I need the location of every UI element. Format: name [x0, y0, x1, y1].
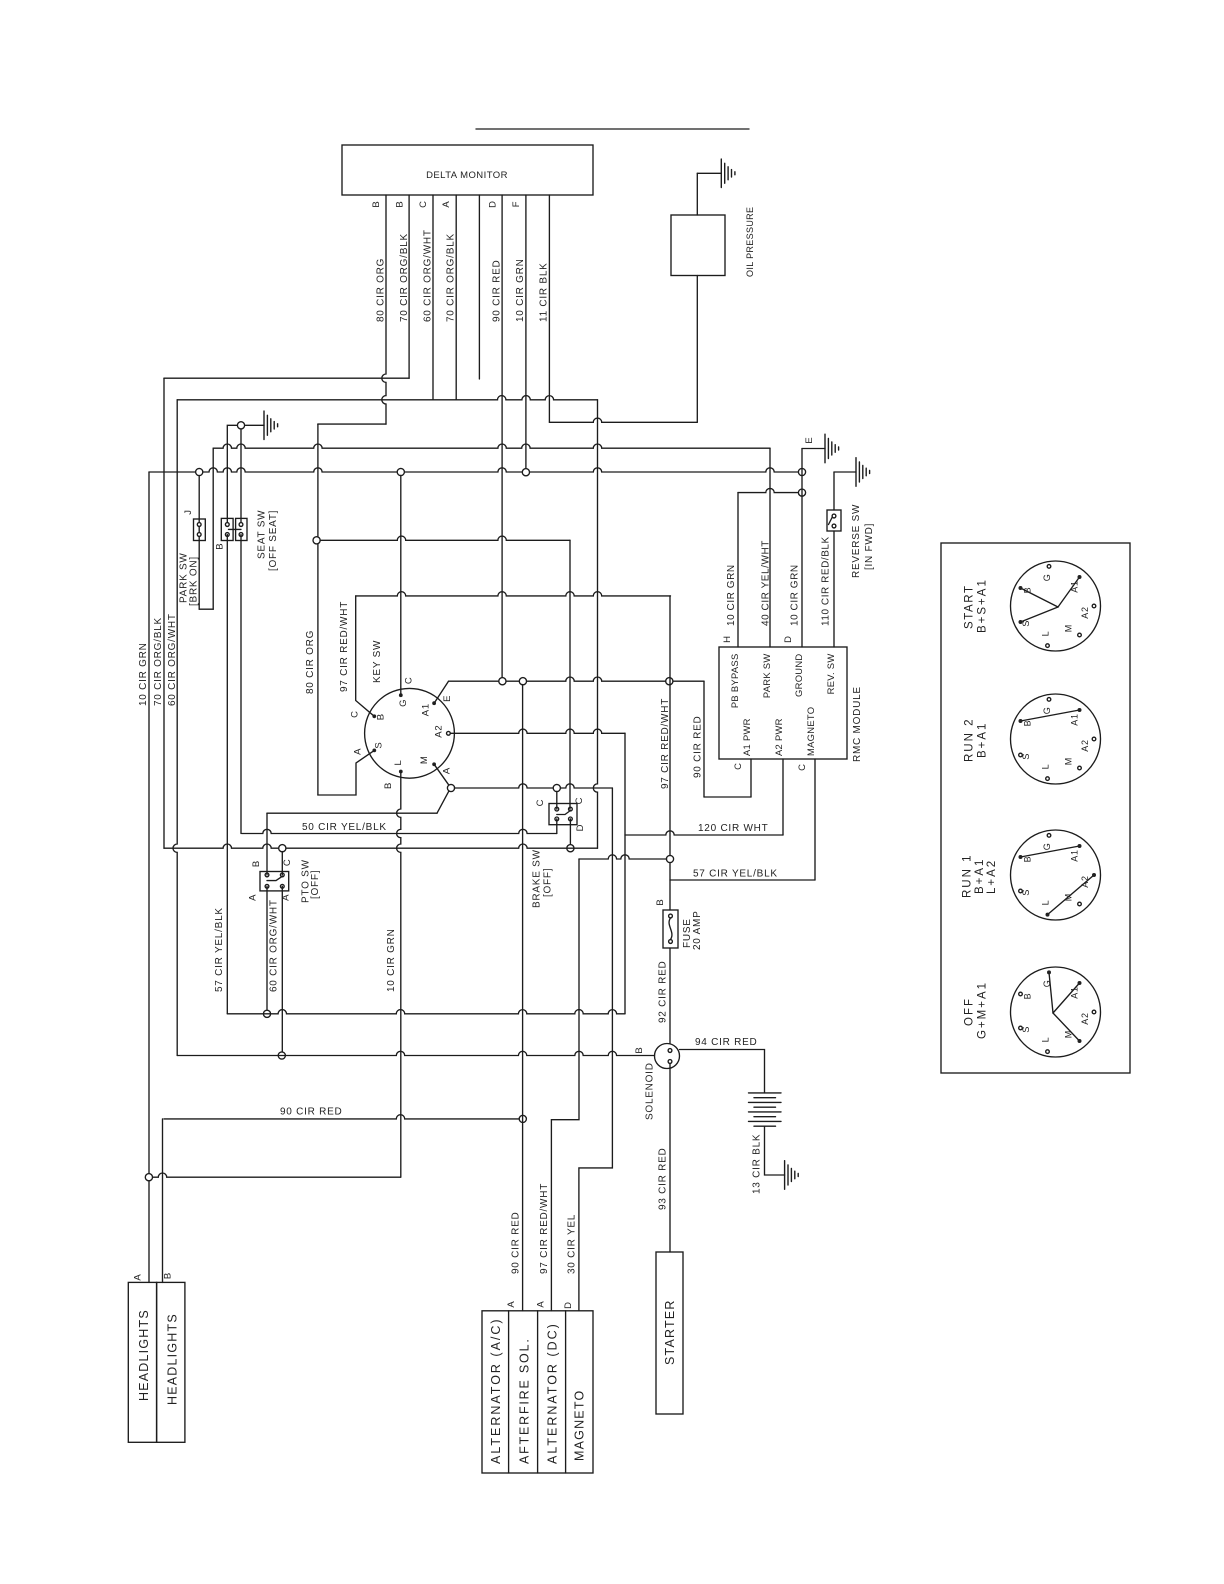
svg-text:50 CIR YEL/BLK: 50 CIR YEL/BLK: [302, 822, 387, 833]
svg-text:KEY SW: KEY SW: [372, 640, 383, 683]
svg-text:30 CIR YEL: 30 CIR YEL: [567, 1214, 578, 1274]
wire brake TL up to M node: [556, 791, 558, 809]
position RUN 2 circle: [1011, 694, 1101, 784]
svg-text:97 CIR RED/WHT: 97 CIR RED/WHT: [539, 1183, 550, 1274]
node park top junction: [196, 468, 203, 475]
wire 57 CIR YEL/BLK y1014: [227, 1010, 625, 1014]
wire 57 CIR YEL/BLK seat left down: [226, 535, 228, 1014]
wire 57 CIR YEL/BLK right: [670, 879, 815, 881]
svg-text:RUN 2: RUN 2: [963, 717, 975, 762]
svg-text:DELTA MONITOR: DELTA MONITOR: [426, 170, 508, 181]
svg-text:110 CIR RED/BLK: 110 CIR RED/BLK: [821, 536, 832, 626]
svg-text:120 CIR WHT: 120 CIR WHT: [698, 823, 768, 834]
svg-text:OFF: OFF: [963, 997, 975, 1026]
node 80 CIR ORG brake tap: [313, 537, 320, 544]
svg-text:60 CIR ORG/WHT: 60 CIR ORG/WHT: [423, 229, 434, 322]
title separator line: [476, 128, 749, 130]
node brake top junction: [553, 784, 560, 791]
svg-text:10 CIR GRN: 10 CIR GRN: [515, 258, 526, 322]
battery: [749, 1093, 782, 1126]
wire 90 CIR RED to A1 PWR: [703, 681, 705, 797]
svg-text:OIL PRESSURE: OIL PRESSURE: [745, 207, 755, 277]
pin B key switch: [372, 714, 376, 718]
position START contact line: [1058, 577, 1080, 607]
contact brake BL: [555, 817, 559, 821]
svg-text:[OFF]: [OFF]: [543, 868, 554, 897]
svg-text:A1: A1: [1070, 849, 1080, 862]
position OFF pin A1: [1078, 981, 1082, 985]
contact reverse bottom: [832, 524, 836, 528]
svg-text:M: M: [1063, 1030, 1073, 1038]
wire rmc A1 PWR down: [750, 759, 752, 797]
wire 97 CIR RED/WHT horizontal y596: [356, 592, 671, 596]
position START pin A1: [1078, 575, 1082, 579]
svg-text:B+A1: B+A1: [974, 858, 986, 894]
wire 11 CIR BLK horizontal: [549, 418, 697, 422]
contact PTO TL: [265, 873, 269, 877]
wire 10 CIR GRN to headlights y1177: [152, 1173, 400, 1177]
svg-text:[OFF]: [OFF]: [310, 870, 321, 899]
contact solenoid bottom: [668, 1060, 672, 1064]
position START contact line: [1021, 588, 1059, 607]
svg-text:60 CIR ORG/WHT: 60 CIR ORG/WHT: [167, 613, 178, 706]
contact seat R bottom: [239, 533, 243, 537]
svg-text:G+M+A1: G+M+A1: [976, 981, 988, 1039]
svg-text:A2: A2: [433, 724, 444, 737]
svg-text:57 CIR YEL/BLK: 57 CIR YEL/BLK: [214, 907, 225, 992]
position OFF circle: [1011, 967, 1101, 1057]
component FUSE box: [663, 910, 678, 948]
component DELTA MONITOR box: [342, 145, 593, 195]
wire seat link bar: [229, 528, 242, 530]
svg-text:D: D: [575, 824, 586, 832]
wire brake D line y833: [242, 829, 557, 833]
divider alternator box 1: [508, 1311, 510, 1473]
ground battery: [785, 1161, 799, 1190]
svg-text:C: C: [350, 710, 361, 718]
wire rmc A2 PWR down: [782, 759, 784, 835]
contact park bottom: [197, 533, 201, 537]
pin A2 key switch: [447, 731, 451, 735]
svg-text:B: B: [376, 713, 387, 720]
position RUN 2 pin A1: [1078, 708, 1082, 712]
wire 60 CIR ORG/WHT right branch vertical: [593, 400, 597, 848]
wire headlight B feed: [162, 1119, 164, 1283]
svg-text:B+S+A1: B+S+A1: [976, 578, 988, 633]
pin S key switch: [372, 749, 376, 753]
node headlight junction: [145, 1174, 152, 1181]
svg-text:90 CIR RED: 90 CIR RED: [511, 1211, 522, 1274]
svg-text:C: C: [535, 799, 546, 807]
position RUN 1 pin A1: [1078, 844, 1082, 848]
position RUN 2 pin B: [1019, 719, 1023, 723]
svg-text:A1: A1: [1070, 713, 1080, 726]
svg-text:10 CIR GRN: 10 CIR GRN: [138, 642, 149, 706]
wire 50 CIR YEL/BLK horizontal: [267, 812, 437, 814]
svg-text:M: M: [1063, 757, 1073, 765]
svg-text:13 CIR BLK: 13 CIR BLK: [752, 1134, 763, 1194]
contact fuse top: [669, 914, 673, 918]
svg-text:L+A2: L+A2: [986, 859, 998, 894]
svg-text:97 CIR RED/WHT: 97 CIR RED/WHT: [339, 601, 350, 692]
svg-text:A: A: [536, 1300, 547, 1307]
node 90 CIR RED junction: [519, 1115, 526, 1122]
wire ground link seat: [244, 424, 264, 426]
wire key L 10 CIR GRN down: [397, 772, 401, 1178]
svg-text:G: G: [1042, 979, 1052, 987]
node 90 CIR RED join: [519, 678, 526, 685]
ground oil pressure: [721, 159, 735, 188]
svg-text:B: B: [371, 200, 382, 207]
svg-text:S: S: [1021, 889, 1031, 896]
ground reverse sw: [856, 458, 870, 487]
component OIL PRESSURE box: [671, 215, 725, 276]
wire 80 CIR ORG vertical: [317, 424, 319, 795]
wire PTO B up to 50 line: [266, 813, 268, 875]
svg-text:A2: A2: [1080, 1012, 1090, 1025]
wire A2 riser x625: [624, 733, 626, 1014]
node key G wire junction: [397, 468, 404, 475]
svg-text:70 CIR ORG/BLK: 70 CIR ORG/BLK: [399, 233, 410, 322]
position OFF contact line: [1053, 983, 1080, 1013]
svg-text:L: L: [393, 759, 404, 765]
component HEADLIGHTS box 2: [157, 1282, 185, 1442]
svg-text:70 CIR ORG/BLK: 70 CIR ORG/BLK: [446, 233, 457, 322]
pin A1 key switch: [432, 701, 436, 705]
svg-text:M: M: [1063, 893, 1073, 901]
svg-text:40 CIR YEL/WHT: 40 CIR YEL/WHT: [761, 540, 772, 626]
svg-text:F: F: [511, 201, 522, 208]
svg-text:B+A1: B+A1: [976, 722, 988, 758]
svg-text:94 CIR RED: 94 CIR RED: [695, 1037, 758, 1048]
switch BRAKE SW box: [549, 804, 577, 825]
svg-text:A: A: [352, 748, 363, 755]
svg-text:60 CIR ORG/WHT: 60 CIR ORG/WHT: [269, 899, 280, 992]
svg-text:RMC MODULE: RMC MODULE: [852, 686, 863, 762]
svg-text:A1: A1: [1070, 580, 1080, 593]
svg-text:E: E: [804, 436, 815, 443]
node PTO C bottom junction: [278, 1052, 285, 1059]
svg-text:92 CIR RED: 92 CIR RED: [658, 960, 669, 1023]
wire 80 CIR ORG jog left at y424: [318, 423, 386, 425]
contact brake TR: [569, 807, 573, 811]
wire rmc PB BYPASS up: [737, 493, 739, 647]
svg-text:J: J: [183, 509, 194, 515]
svg-text:[OFF SEAT]: [OFF SEAT]: [268, 510, 279, 571]
svg-text:SOLENOID: SOLENOID: [645, 1062, 656, 1120]
svg-text:A: A: [506, 1300, 517, 1307]
wire 10 CIR GRN left vertical: [148, 472, 150, 1282]
svg-text:AFTERFIRE SOL.: AFTERFIRE SOL.: [518, 1337, 532, 1464]
contact PTO BL: [265, 884, 269, 888]
svg-text:D: D: [488, 200, 499, 208]
svg-text:REVERSE SW: REVERSE SW: [851, 504, 862, 578]
svg-text:B: B: [1022, 587, 1032, 594]
svg-text:A2: A2: [1080, 739, 1090, 752]
position RUN 2 contact line: [1021, 710, 1080, 721]
svg-text:G: G: [1042, 573, 1052, 581]
wire seat left to ground node: [227, 425, 237, 524]
svg-text:L: L: [1041, 900, 1051, 906]
svg-text:20 AMP: 20 AMP: [692, 910, 703, 950]
wire key A1 line y681: [449, 677, 705, 681]
svg-text:L: L: [1041, 631, 1051, 637]
position RUN 1 pin S: [1019, 889, 1023, 893]
contact brake TL: [555, 807, 559, 811]
position RUN 2 pin S: [1019, 753, 1023, 757]
node PTO C top junction: [279, 845, 286, 852]
lever reverse switch: [829, 517, 833, 525]
wire 70 CIR ORG/BLK left vertical: [163, 378, 165, 848]
fuse element curve: [669, 918, 672, 940]
node brake BR junction: [567, 845, 574, 852]
node fuse feed junction: [666, 855, 673, 862]
svg-text:B: B: [1022, 856, 1032, 863]
contact fuse bottom: [669, 940, 673, 944]
wire 60 CIR ORG/WHT y1055: [177, 1051, 654, 1055]
wire 120 CIR WHT: [625, 831, 783, 835]
position OFF pin S: [1019, 1026, 1023, 1030]
svg-text:57 CIR YEL/BLK: 57 CIR YEL/BLK: [693, 869, 778, 880]
svg-text:10 CIR GRN: 10 CIR GRN: [790, 564, 801, 626]
position OFF contact line: [1053, 1013, 1080, 1041]
wire park switch vertical: [198, 475, 200, 609]
position START contact line: [1021, 607, 1059, 622]
wire delta pin C 60 CIR ORG/WHT down: [432, 195, 434, 400]
svg-text:10 CIR GRN: 10 CIR GRN: [386, 928, 397, 992]
svg-text:M: M: [419, 755, 430, 764]
svg-text:B: B: [634, 1046, 645, 1053]
svg-text:H: H: [722, 635, 733, 643]
svg-text:REV. SW: REV. SW: [825, 654, 836, 695]
wire 90 CIR RED y1119: [164, 1115, 520, 1119]
contact seat R top: [239, 523, 243, 527]
wire 97 to fuse vertical: [669, 596, 671, 910]
switch PARK SW box: [194, 519, 206, 541]
svg-text:[IN FWD]: [IN FWD]: [864, 523, 875, 570]
svg-text:C: C: [418, 200, 429, 208]
wire 13 CIR BLK battery to ground: [765, 1126, 785, 1175]
wire 97 CIR RED/WHT afterfire: [551, 859, 579, 1311]
wire 70 CIR ORG/BLK y848: [164, 844, 598, 848]
svg-text:A1: A1: [1070, 986, 1080, 999]
position OFF pin M: [1078, 1039, 1082, 1043]
divider alternator box 2: [537, 1311, 539, 1473]
node rmc ground junction 2: [798, 489, 805, 496]
svg-text:A: A: [441, 200, 452, 207]
position RUN 2 pin M: [1078, 766, 1082, 770]
svg-text:10 CIR GRN: 10 CIR GRN: [726, 564, 737, 626]
svg-text:93 CIR RED: 93 CIR RED: [658, 1147, 669, 1210]
wire delta pin A 70 CIR ORG/BLK down: [455, 195, 457, 400]
svg-text:E: E: [442, 695, 453, 702]
svg-text:PARK SW: PARK SW: [761, 654, 772, 699]
svg-text:HEADLIGHTS: HEADLIGHTS: [165, 1313, 179, 1405]
position RUN 1 pin A2: [1092, 873, 1096, 877]
svg-text:70 CIR ORG/BLK: 70 CIR ORG/BLK: [153, 617, 164, 706]
wire 70 CIR ORG/BLK horizontal y378: [164, 377, 409, 379]
wire rmc ground link E: [802, 448, 825, 450]
svg-text:MAGNETO: MAGNETO: [805, 707, 816, 756]
svg-text:B: B: [1022, 720, 1032, 727]
position OFF pin L: [1046, 1050, 1050, 1054]
wire rmc PARK SW up: [769, 448, 771, 647]
position START pin B: [1019, 586, 1023, 590]
divider alternator box 3: [565, 1311, 567, 1473]
node key M junction circle: [447, 784, 454, 791]
wire PTO C up to 70 line: [281, 852, 283, 875]
contact reverse top: [832, 514, 836, 518]
position OFF contact line: [1049, 972, 1053, 1013]
contact seat L bottom: [225, 533, 229, 537]
wire 60 CIR ORG/WHT left vertical: [173, 400, 177, 1056]
svg-text:BRAKE SW: BRAKE SW: [532, 849, 543, 908]
position OFF pin A2: [1092, 1010, 1096, 1014]
svg-text:B: B: [163, 1272, 174, 1279]
svg-text:90 CIR RED: 90 CIR RED: [693, 715, 704, 778]
pin L key switch: [399, 770, 403, 774]
pin M key switch: [432, 762, 436, 766]
svg-text:HEADLIGHTS: HEADLIGHTS: [137, 1309, 151, 1401]
position START pin L: [1046, 644, 1050, 648]
position OFF pin G: [1047, 970, 1051, 974]
wire reverse sw up to ground: [833, 472, 835, 510]
position RUN 2 pin A2: [1092, 737, 1096, 741]
ground rmc E: [825, 434, 839, 463]
lever brake switch: [557, 811, 571, 815]
contact brake BR: [569, 817, 573, 821]
switch PTO SW box: [260, 872, 289, 891]
switch SEAT SW left box: [221, 518, 233, 540]
wire rmc REV SW up: [833, 531, 835, 647]
node PTO B bottom junction: [263, 1010, 270, 1017]
position START circle: [1011, 561, 1101, 651]
contact park top: [197, 523, 201, 527]
svg-text:A2: A2: [1080, 606, 1090, 619]
svg-text:L: L: [1041, 764, 1051, 770]
svg-text:SEAT SW: SEAT SW: [257, 510, 268, 559]
svg-text:G: G: [1042, 706, 1052, 714]
svg-text:RUN 1: RUN 1: [961, 853, 973, 898]
svg-text:S: S: [374, 742, 385, 749]
svg-text:STARTER: STARTER: [663, 1299, 677, 1365]
wire 60 CIR ORG/WHT horizontal y400: [177, 396, 597, 400]
wire delta 11 CIR BLK down: [548, 195, 550, 422]
wire PTO C down to 60 line: [281, 886, 283, 1055]
svg-text:A: A: [132, 1273, 143, 1280]
wire 94 CIR RED: [680, 1050, 765, 1093]
contact seat L top: [225, 523, 229, 527]
wire 50 CIR YEL/BLK diagonal: [437, 791, 449, 813]
node 97 wire join: [666, 678, 673, 685]
position OFF pin B: [1019, 992, 1023, 996]
wire 80 CIR ORG to key S: [318, 750, 374, 795]
svg-text:[BRK ON]: [BRK ON]: [189, 556, 200, 606]
lever PTO switch: [267, 876, 282, 880]
svg-text:ALTERNATOR (A/C): ALTERNATOR (A/C): [489, 1317, 503, 1464]
wire park hairpin bottom: [199, 608, 213, 610]
svg-text:A2: A2: [1080, 875, 1090, 888]
wire 10 CIR GRN pb bypass y492: [738, 488, 799, 492]
svg-text:START: START: [963, 584, 975, 629]
wire 93 CIR RED solenoid to starter: [669, 1064, 671, 1252]
wire delta pin D 90 CIR RED down to A1 node: [501, 195, 503, 681]
svg-text:C: C: [404, 676, 415, 684]
svg-text:PB BYPASS: PB BYPASS: [729, 654, 740, 709]
svg-text:M: M: [1063, 624, 1073, 632]
wire rmc GROUND up: [801, 449, 803, 648]
component HEADLIGHTS box 1: [128, 1282, 156, 1442]
panel key positions box: [941, 543, 1130, 1073]
contact PTO TR: [280, 873, 284, 877]
svg-text:B: B: [655, 898, 666, 905]
wire brake BR down: [569, 819, 571, 845]
svg-text:ALTERNATOR (DC): ALTERNATOR (DC): [546, 1322, 560, 1464]
wire seat right to ground node: [240, 429, 242, 525]
svg-text:D: D: [563, 1301, 574, 1309]
wire 90 CIR RED vertical x522: [522, 685, 524, 1311]
svg-text:GROUND: GROUND: [793, 654, 804, 697]
wire brake BL down: [556, 819, 558, 834]
svg-text:B: B: [383, 782, 394, 789]
position RUN 1 pin M: [1078, 902, 1082, 906]
position START pin M: [1078, 633, 1082, 637]
svg-text:90 CIR RED: 90 CIR RED: [492, 259, 503, 322]
wire key A1 diagonal: [434, 681, 448, 703]
position RUN 1 contact line: [1021, 846, 1080, 857]
wire oil ground link: [697, 172, 721, 174]
wire 10 CIR GRN net y472: [149, 468, 799, 472]
wire delta stub: [478, 195, 480, 379]
svg-text:C: C: [574, 797, 585, 805]
svg-text:11 CIR BLK: 11 CIR BLK: [539, 262, 550, 322]
svg-text:B: B: [395, 200, 406, 207]
svg-text:C: C: [733, 762, 744, 770]
ground seat switch: [264, 411, 278, 440]
svg-text:90 CIR RED: 90 CIR RED: [280, 1107, 343, 1118]
position RUN 1 pin G: [1047, 834, 1051, 838]
wire key M diagonal: [434, 764, 449, 785]
position RUN 1 pin B: [1019, 855, 1023, 859]
wire key A2 line y733: [450, 729, 625, 733]
wire delta pin B2 70 CIR ORG/BLK down: [408, 195, 410, 378]
wire A1 PWR hook: [704, 796, 751, 798]
contact solenoid top: [668, 1049, 672, 1053]
pin G key switch: [399, 693, 403, 697]
svg-text:MAGNETO: MAGNETO: [573, 1390, 587, 1461]
wire reverse ground link: [834, 471, 856, 473]
svg-text:S: S: [1021, 620, 1031, 627]
wire delta pin B1 80 CIR ORG down: [382, 195, 386, 424]
component SOLENOID circle: [655, 1044, 680, 1069]
position START pin S: [1019, 620, 1023, 624]
node delta D join: [499, 678, 506, 685]
node rmc ground junction 1: [798, 468, 805, 475]
wire oil pressure to ground: [696, 173, 698, 215]
svg-text:D: D: [783, 635, 794, 643]
wire key G up to 10 CIR GRN net: [400, 475, 402, 695]
wire seat right down to brake D line: [240, 535, 242, 834]
switch REVERSE SW box: [827, 510, 841, 531]
svg-text:S: S: [1021, 753, 1031, 760]
switch KEY SW circle: [365, 688, 455, 778]
wire oil pressure down 11 CIR BLK: [696, 276, 698, 423]
wire 80 tap to brake y540: [320, 536, 570, 540]
wire delta pin F 10 CIR GRN down: [525, 195, 527, 472]
wire PTO B down to 57 line: [266, 886, 268, 1010]
svg-text:S: S: [1021, 1026, 1031, 1033]
svg-text:97 CIR RED/WHT: 97 CIR RED/WHT: [660, 698, 671, 789]
